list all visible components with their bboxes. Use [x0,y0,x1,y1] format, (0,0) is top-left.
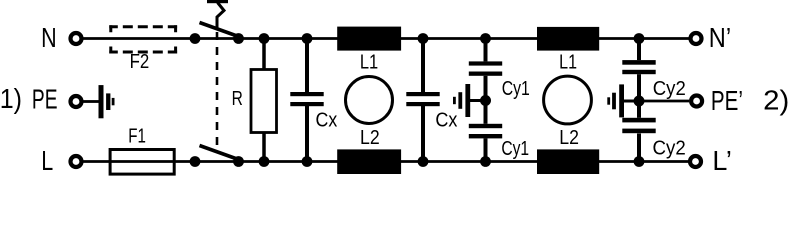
wire Cy2 to PE' [639,100,689,103]
svg-text:Cy1: Cy1 [502,77,530,100]
core circle choke 2 [544,76,592,124]
ground PE symbol left [99,85,115,118]
node switch L right [233,156,244,167]
wire R top stub [262,39,266,70]
wire L line [84,160,689,163]
node switch N right [233,33,244,44]
wire Cx1 top stub [305,39,309,93]
switch blade N [200,23,239,37]
switch actuator zigzag [217,3,224,30]
svg-text:Cy2: Cy2 [653,77,686,100]
inductor L2 winding 1 [337,149,401,174]
node Cx1 bottom [302,156,313,167]
resistor R [251,70,277,133]
node Cy2 bottom [634,156,645,167]
ground symbol Cy1 [453,84,486,117]
svg-text:L2: L2 [559,126,579,149]
wire Cy2 bottom stub [637,134,641,162]
wire Cy2 top stub [637,39,641,61]
switch actuator bar [207,0,228,3]
node Cy2 top [634,33,645,44]
inductor L1 winding 1 [337,27,401,51]
svg-text:F2: F2 [130,50,150,73]
svg-text:Cx: Cx [316,108,338,131]
capacitor Cy1 lower [469,124,502,139]
node Cy1 middle [480,95,491,106]
node Cx2 top [418,33,429,44]
terminal N' [691,33,702,44]
terminal L [71,156,82,167]
svg-text:R: R [232,87,243,110]
wire Cy1 middle stub [484,76,488,124]
wire Cy1 bottom stub [484,138,488,161]
svg-text:L: L [41,145,53,176]
node Cy1 top [480,33,491,44]
terminal PE [71,96,82,107]
node Cx1 top [302,33,313,44]
switch coupling dashed link [216,32,219,150]
switch blade L [200,146,239,160]
node Cx2 bottom [418,156,429,167]
node Cy2 middle [634,96,645,107]
svg-text:Cx: Cx [435,108,458,131]
svg-text:N: N [41,22,57,53]
node Cy1 bottom [480,156,491,167]
fuse F2 (dashed, optional) [109,25,177,53]
ground symbol Cy2 [607,84,639,117]
fuse F1 [110,150,174,175]
wire Cx1 bottom stub [305,106,309,162]
capacitor Cy2 upper [622,60,655,74]
svg-text:L’: L’ [712,145,731,176]
svg-text:F1: F1 [128,124,146,147]
capacitor Cy2 lower [622,118,655,133]
wire Cy2 middle stub [637,74,641,118]
svg-text:N’: N’ [709,22,731,53]
node switch L left [190,156,201,167]
terminal L' [690,156,701,167]
wire PE stub [84,100,100,103]
svg-text:PE: PE [32,83,58,114]
svg-text:Cy2: Cy2 [652,137,685,160]
wire Cx2 bottom stub [421,106,425,162]
capacitor Cx2 [406,92,439,106]
svg-text:L1: L1 [360,50,378,73]
svg-text:L1: L1 [559,50,577,73]
capacitor Cy1 upper [469,61,502,75]
svg-text:Cy1: Cy1 [501,137,529,160]
core circle choke 1 [346,77,393,124]
terminal PE' [691,96,702,107]
svg-text:1): 1) [0,83,22,114]
svg-text:L2: L2 [360,126,380,149]
wire Cx2 top stub [421,39,425,93]
svg-text:2): 2) [763,85,789,116]
node R bottom [259,156,270,167]
terminal N [71,33,82,44]
wire Cy1 top stub [484,39,488,62]
wire N line [84,37,689,40]
node switch N left [190,33,201,44]
wire R bottom stub [262,133,266,162]
inductor L1 winding 2 [537,27,599,51]
inductor L2 winding 2 [537,149,599,174]
svg-text:PE’: PE’ [711,85,743,116]
node R top [259,33,270,44]
capacitor Cx1 [290,92,323,106]
